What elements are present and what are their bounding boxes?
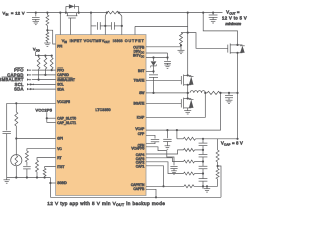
svg-text:CAP1: CAP1	[136, 164, 145, 168]
svg-text:TGATE: TGATE	[134, 79, 146, 83]
svg-text:SDA: SDA	[57, 87, 65, 91]
svg-text:= 12 V: = 12 V	[11, 10, 25, 15]
svg-text:VCAPP5: VCAPP5	[131, 147, 144, 151]
svg-text:OUTFET: OUTFET	[125, 39, 145, 43]
svg-text:DD: DD	[36, 49, 40, 53]
svg-text:SGND: SGND	[57, 181, 67, 185]
svg-text:ITST: ITST	[57, 165, 64, 169]
svg-text:VOUTM5: VOUTM5	[84, 39, 102, 43]
svg-text:LTC3350: LTC3350	[96, 108, 111, 112]
svg-text:CAPFB: CAPFB	[133, 187, 145, 191]
svg-text:PFO: PFO	[57, 68, 64, 72]
svg-text:BST: BST	[138, 69, 144, 73]
svg-text:BGATE: BGATE	[133, 102, 145, 106]
svg-text:ISNS: ISNS	[113, 39, 123, 43]
svg-text:VCAP: VCAP	[135, 127, 145, 131]
svg-text:INFET: INFET	[70, 39, 83, 43]
svg-text:ICAP: ICAP	[137, 115, 145, 119]
svg-text:IN: IN	[6, 12, 9, 16]
svg-text:SCL: SCL	[57, 83, 64, 87]
svg-text:SW: SW	[139, 91, 145, 95]
svg-text:VCC2P5: VCC2P5	[36, 107, 53, 112]
svg-text:PFI: PFI	[57, 45, 62, 49]
svg-text:CAPGD: CAPGD	[57, 73, 69, 77]
svg-text:VC: VC	[57, 147, 62, 151]
svg-text:RT: RT	[57, 156, 61, 160]
svg-text:SDA: SDA	[14, 87, 24, 92]
svg-text:CFP: CFP	[138, 132, 145, 136]
svg-text:minimum: minimum	[225, 21, 242, 26]
svg-text:CAP_SLCT1: CAP_SLCT1	[57, 121, 76, 125]
svg-text:VCC2P5: VCC2P5	[57, 100, 70, 104]
svg-text:SMBALERT: SMBALERT	[57, 78, 75, 82]
svg-text:GPI: GPI	[57, 137, 63, 141]
